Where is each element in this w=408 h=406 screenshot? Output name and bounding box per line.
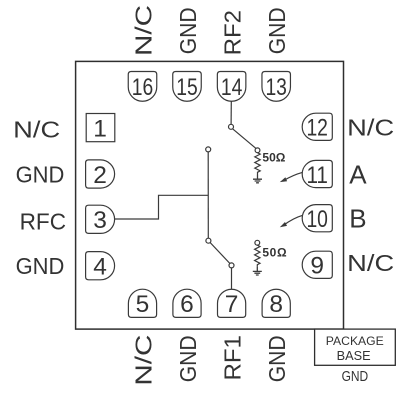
svg-text:N/C: N/C xyxy=(347,250,394,276)
svg-text:GND: GND xyxy=(16,253,65,279)
svg-text:12: 12 xyxy=(306,115,328,142)
svg-text:13: 13 xyxy=(265,74,287,101)
switch arm: pole to RF1 contact (closed path) xyxy=(210,243,230,264)
pin 2 pad xyxy=(86,160,115,188)
svg-text:10: 10 xyxy=(306,206,328,233)
wire: common pole line xyxy=(207,152,209,238)
svg-text:2: 2 xyxy=(93,162,107,189)
pin 1 pad xyxy=(86,114,115,142)
svg-text:4: 4 xyxy=(93,254,107,281)
pin 16 pad xyxy=(128,72,157,102)
svg-text:14: 14 xyxy=(221,74,243,101)
wire: RF1 contact down to pin 7 xyxy=(231,268,233,289)
pin 13 pad xyxy=(262,72,291,102)
svg-text:16: 16 xyxy=(132,74,154,101)
node: common pole top contact xyxy=(206,147,211,152)
pin 4 pad xyxy=(86,252,115,280)
chip outline (16-pin package body) xyxy=(76,61,344,329)
svg-text:11: 11 xyxy=(306,162,328,189)
svg-text:7: 7 xyxy=(225,291,239,318)
pin 11 pad xyxy=(302,160,332,187)
svg-text:N/C: N/C xyxy=(347,114,394,140)
pin 6 pad xyxy=(173,289,201,317)
svg-text:PACKAGE: PACKAGE xyxy=(326,334,384,348)
node: top termination contact xyxy=(255,148,260,153)
svg-text:N/C: N/C xyxy=(130,5,156,56)
node: bottom termination contact xyxy=(255,240,260,245)
svg-text:N/C: N/C xyxy=(13,117,60,143)
svg-text:BASE: BASE xyxy=(337,349,371,363)
node: common pole bottom contact xyxy=(206,238,211,243)
svg-text:50Ω: 50Ω xyxy=(262,246,287,260)
svg-text:N/C: N/C xyxy=(130,335,156,386)
svg-text:50Ω: 50Ω xyxy=(262,150,285,164)
package base paddle box xyxy=(315,329,396,365)
svg-text:3: 3 xyxy=(93,207,107,234)
svg-text:RF2: RF2 xyxy=(220,10,246,55)
resistor R1 50-ohm (top termination) xyxy=(255,153,260,175)
pin 9 pad xyxy=(302,251,332,278)
pin 15 pad xyxy=(173,72,202,102)
svg-text:GND: GND xyxy=(264,335,290,382)
pin 10 pad xyxy=(302,205,332,232)
node: RF1 switch contact xyxy=(229,263,234,268)
pin 3 pad xyxy=(86,205,115,233)
svg-text:5: 5 xyxy=(136,291,150,318)
svg-text:15: 15 xyxy=(176,74,198,101)
svg-text:1: 1 xyxy=(93,115,107,142)
svg-text:8: 8 xyxy=(269,291,283,318)
wire RFC from pin 3 xyxy=(115,195,209,219)
control leader arrow from pin 10 (B) xyxy=(284,215,302,225)
pin 8 pad xyxy=(262,289,290,317)
node: RF2 switch contact xyxy=(229,124,234,129)
ground (top termination) xyxy=(253,175,262,183)
svg-text:GND: GND xyxy=(175,335,201,382)
pin 14 pad xyxy=(217,72,246,102)
resistor R2 50-ohm (bottom termination) xyxy=(255,245,260,267)
ground (bottom termination) xyxy=(253,267,262,275)
svg-text:GND: GND xyxy=(175,7,201,54)
svg-text:GND: GND xyxy=(342,369,369,385)
svg-text:B: B xyxy=(349,204,366,234)
wire pin14 (RF2) down to switch contact xyxy=(230,101,232,124)
svg-text:GND: GND xyxy=(264,7,290,54)
pin 5 pad xyxy=(128,289,156,317)
svg-text:A: A xyxy=(349,159,367,189)
switch arm: RF2 contact to 50-ohm termination xyxy=(233,129,256,149)
svg-text:6: 6 xyxy=(180,291,194,318)
control leader arrow from pin 11 (A) xyxy=(284,172,302,180)
svg-text:RFC: RFC xyxy=(20,209,66,235)
svg-text:9: 9 xyxy=(310,253,324,280)
svg-text:RF1: RF1 xyxy=(220,335,246,380)
pin 7 pad xyxy=(218,289,246,317)
svg-text:GND: GND xyxy=(16,162,65,188)
pin 12 pad xyxy=(302,113,332,140)
